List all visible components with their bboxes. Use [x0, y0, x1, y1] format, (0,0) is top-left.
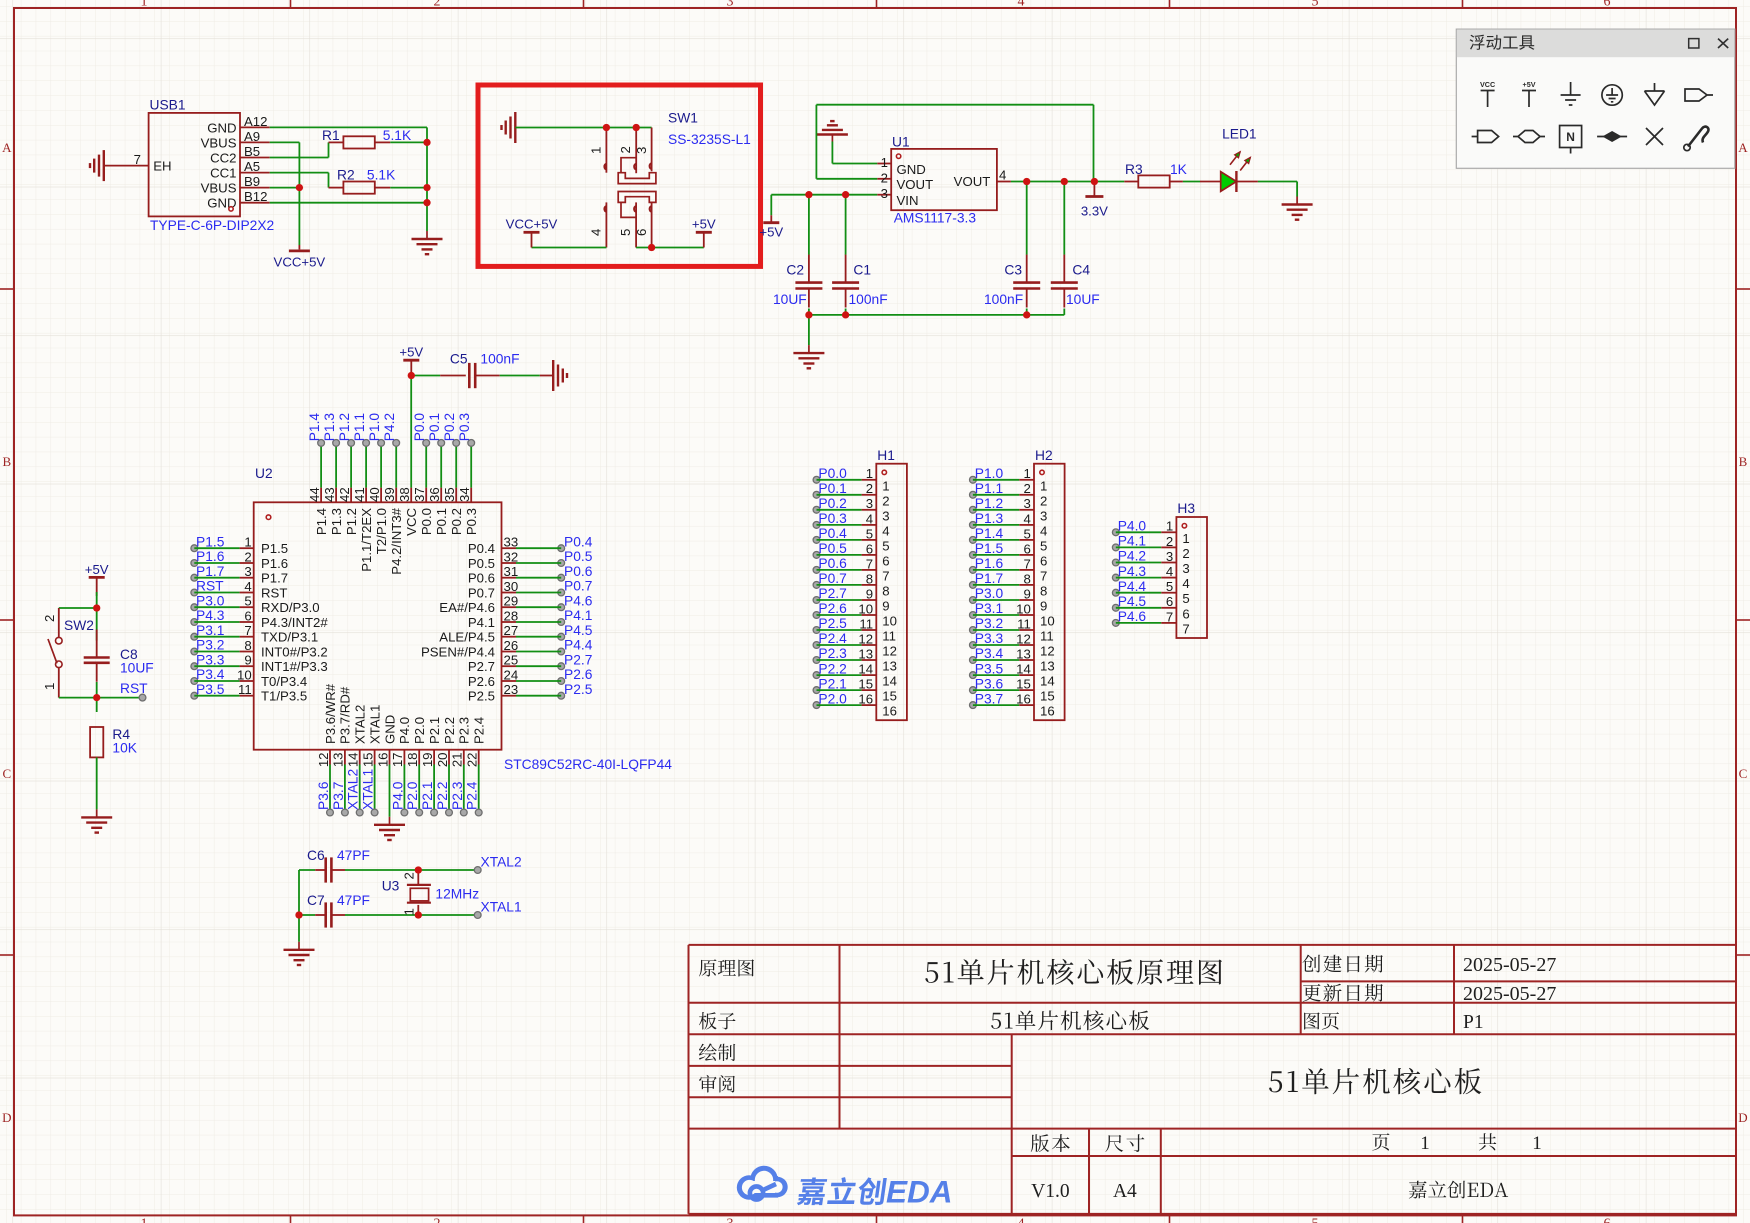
- svg-text:4: 4: [882, 523, 889, 538]
- svg-text:5: 5: [882, 538, 889, 553]
- svg-text:14: 14: [1040, 674, 1055, 689]
- svg-text:14: 14: [1016, 662, 1031, 677]
- svg-text:SS-3235S-L1: SS-3235S-L1: [668, 132, 751, 147]
- svg-text:P2.6: P2.6: [468, 674, 495, 689]
- svg-text:P1.5: P1.5: [261, 541, 288, 556]
- svg-text:4: 4: [866, 511, 873, 526]
- svg-text:XTAL2: XTAL2: [353, 705, 368, 744]
- svg-text:STC89C52RC-40I-LQFP44: STC89C52RC-40I-LQFP44: [504, 757, 672, 772]
- svg-text:2025-05-27: 2025-05-27: [1463, 954, 1556, 976]
- svg-text:3: 3: [882, 508, 889, 523]
- svg-text:C3: C3: [1004, 263, 1022, 278]
- svg-text:1: 1: [589, 147, 604, 154]
- svg-text:35: 35: [442, 487, 457, 502]
- svg-text:3: 3: [244, 564, 251, 579]
- svg-text:+5V: +5V: [85, 562, 109, 577]
- svg-text:INT0#/P3.2: INT0#/P3.2: [261, 645, 328, 660]
- svg-text:15: 15: [858, 677, 873, 692]
- svg-text:14: 14: [346, 753, 361, 768]
- svg-text:P1: P1: [1463, 1012, 1484, 1033]
- svg-text:P3.4: P3.4: [196, 667, 225, 682]
- svg-text:P2.6: P2.6: [818, 601, 847, 616]
- svg-text:P0.7: P0.7: [564, 579, 592, 594]
- svg-text:A4: A4: [1113, 1181, 1137, 1202]
- svg-text:H2: H2: [1035, 448, 1053, 463]
- svg-text:P0.3: P0.3: [457, 413, 472, 442]
- svg-text:P3.1: P3.1: [975, 601, 1003, 616]
- svg-text:P3.5: P3.5: [196, 682, 225, 697]
- svg-text:37: 37: [412, 487, 427, 502]
- svg-text:15: 15: [882, 689, 897, 704]
- svg-text:3: 3: [1166, 549, 1173, 564]
- svg-text:P2.7: P2.7: [818, 586, 846, 601]
- svg-text:6: 6: [634, 229, 649, 236]
- svg-text:2: 2: [434, 0, 441, 10]
- svg-text:V1.0: V1.0: [1031, 1181, 1069, 1202]
- svg-text:33: 33: [504, 535, 519, 550]
- svg-text:6: 6: [1182, 606, 1189, 621]
- svg-text:7: 7: [1166, 609, 1173, 624]
- svg-text:B5: B5: [244, 144, 260, 159]
- svg-text:1: 1: [1166, 519, 1173, 534]
- svg-text:100nF: 100nF: [849, 292, 888, 307]
- svg-text:GND: GND: [207, 196, 236, 211]
- svg-text:A: A: [2, 140, 12, 155]
- svg-text:R2: R2: [337, 168, 355, 183]
- svg-text:2: 2: [244, 549, 251, 564]
- svg-text:P2.4: P2.4: [818, 631, 847, 646]
- svg-text:P0.0: P0.0: [818, 466, 847, 481]
- svg-text:P3.1: P3.1: [196, 623, 224, 638]
- svg-text:3: 3: [1182, 561, 1189, 576]
- svg-text:U3: U3: [382, 879, 400, 894]
- svg-text:19: 19: [420, 753, 435, 768]
- svg-text:7: 7: [1182, 621, 1189, 636]
- svg-text:11: 11: [1017, 616, 1031, 631]
- svg-text:P1.3: P1.3: [975, 511, 1004, 526]
- svg-text:7: 7: [866, 556, 873, 571]
- svg-text:2: 2: [1166, 534, 1173, 549]
- svg-text:P0.0: P0.0: [412, 413, 427, 442]
- svg-text:29: 29: [504, 594, 519, 609]
- svg-text:C1: C1: [853, 263, 871, 278]
- svg-text:RST: RST: [196, 579, 224, 594]
- svg-text:3: 3: [727, 1217, 734, 1223]
- svg-text:12MHz: 12MHz: [435, 887, 479, 902]
- svg-text:P1.0: P1.0: [367, 413, 382, 442]
- svg-text:13: 13: [858, 646, 873, 661]
- svg-text:VOUT: VOUT: [897, 177, 934, 192]
- svg-text:2: 2: [1182, 546, 1189, 561]
- svg-text:P4.2: P4.2: [382, 413, 397, 441]
- svg-text:7: 7: [1023, 556, 1030, 571]
- svg-text:1K: 1K: [1170, 162, 1188, 177]
- svg-text:3: 3: [1040, 508, 1047, 523]
- svg-text:7: 7: [882, 568, 889, 583]
- svg-text:INT1#/P3.3: INT1#/P3.3: [261, 659, 328, 674]
- svg-text:47PF: 47PF: [337, 848, 370, 863]
- svg-text:P3.2: P3.2: [196, 638, 224, 653]
- svg-text:16: 16: [858, 692, 873, 707]
- svg-text:P2.5: P2.5: [564, 682, 593, 697]
- svg-text:VBUS: VBUS: [201, 181, 237, 196]
- svg-text:2: 2: [882, 493, 889, 508]
- svg-text:P0.6: P0.6: [818, 556, 847, 571]
- svg-text:31: 31: [504, 564, 519, 579]
- svg-text:P1.7: P1.7: [975, 571, 1003, 586]
- svg-text:P4.0: P4.0: [397, 717, 412, 744]
- svg-text:8: 8: [1040, 583, 1047, 598]
- svg-text:11: 11: [882, 629, 896, 644]
- svg-text:VCC: VCC: [404, 508, 419, 536]
- svg-text:P0.4: P0.4: [818, 526, 847, 541]
- svg-text:D: D: [1738, 1110, 1747, 1125]
- svg-text:USB1: USB1: [150, 98, 186, 113]
- svg-text:VOUT: VOUT: [954, 174, 991, 189]
- svg-text:42: 42: [337, 487, 352, 502]
- svg-text:P2.5: P2.5: [818, 616, 847, 631]
- svg-text:H3: H3: [1177, 501, 1195, 516]
- svg-text:18: 18: [405, 753, 420, 768]
- svg-text:+5V: +5V: [692, 217, 716, 232]
- svg-text:13: 13: [882, 659, 897, 674]
- svg-text:P0.6: P0.6: [564, 564, 593, 579]
- svg-text:10UF: 10UF: [1066, 292, 1100, 307]
- svg-text:P2.1: P2.1: [818, 676, 846, 691]
- svg-text:7: 7: [244, 623, 251, 638]
- svg-text:5: 5: [866, 526, 873, 541]
- svg-text:P0.1: P0.1: [427, 413, 442, 441]
- svg-text:8: 8: [1023, 571, 1030, 586]
- svg-text:13: 13: [1040, 659, 1055, 674]
- svg-text:P3.2: P3.2: [975, 616, 1003, 631]
- svg-text:GND: GND: [382, 715, 397, 744]
- svg-text:10: 10: [1040, 614, 1055, 629]
- svg-text:P4.3: P4.3: [196, 608, 225, 623]
- svg-text:1: 1: [42, 683, 57, 690]
- svg-text:P2.6: P2.6: [564, 667, 593, 682]
- svg-text:P2.7: P2.7: [564, 652, 592, 667]
- svg-text:6: 6: [1604, 0, 1611, 10]
- svg-text:+5V: +5V: [759, 225, 783, 240]
- svg-text:P1.1: P1.1: [975, 481, 1003, 496]
- svg-text:P1.4: P1.4: [975, 526, 1004, 541]
- svg-text:5: 5: [1040, 538, 1047, 553]
- svg-text:3: 3: [727, 0, 734, 10]
- svg-text:7: 7: [134, 152, 141, 167]
- svg-text:16: 16: [1016, 692, 1031, 707]
- svg-text:P1.2: P1.2: [975, 496, 1003, 511]
- svg-text:P0.7: P0.7: [818, 571, 846, 586]
- svg-text:15: 15: [1016, 677, 1031, 692]
- svg-text:B: B: [1739, 454, 1748, 469]
- svg-text:3: 3: [881, 186, 888, 201]
- svg-text:VCC: VCC: [1480, 80, 1495, 89]
- svg-text:11: 11: [859, 616, 873, 631]
- svg-text:P3.3: P3.3: [196, 652, 225, 667]
- svg-text:P2.3: P2.3: [450, 781, 465, 810]
- svg-text:P3.6: P3.6: [975, 676, 1004, 691]
- svg-text:CC1: CC1: [210, 166, 236, 181]
- svg-text:5: 5: [1166, 579, 1173, 594]
- svg-text:10: 10: [858, 601, 873, 616]
- svg-text:3: 3: [634, 147, 649, 154]
- svg-text:P2.3: P2.3: [818, 646, 847, 661]
- svg-text:GND: GND: [207, 120, 236, 135]
- svg-text:P4.4: P4.4: [564, 638, 593, 653]
- svg-text:26: 26: [504, 638, 519, 653]
- svg-text:43: 43: [322, 487, 337, 502]
- svg-text:40: 40: [367, 487, 382, 502]
- svg-text:P0.1: P0.1: [818, 481, 846, 496]
- svg-text:P2.2: P2.2: [818, 661, 846, 676]
- svg-text:P1.5: P1.5: [975, 541, 1004, 556]
- svg-text:9: 9: [244, 653, 251, 668]
- svg-text:C: C: [1739, 766, 1748, 781]
- svg-text:P2.4: P2.4: [472, 717, 487, 744]
- svg-text:3: 3: [1023, 496, 1030, 511]
- svg-text:4: 4: [1018, 0, 1025, 10]
- svg-text:6: 6: [1166, 594, 1173, 609]
- svg-text:P3.6/WR#: P3.6/WR#: [323, 683, 338, 744]
- svg-text:21: 21: [450, 753, 465, 768]
- svg-text:P1.0: P1.0: [975, 466, 1004, 481]
- svg-text:P4.5: P4.5: [564, 623, 593, 638]
- svg-text:P4.1: P4.1: [1118, 534, 1146, 549]
- svg-text:TYPE-C-6P-DIP2X2: TYPE-C-6P-DIP2X2: [150, 218, 274, 233]
- svg-text:P4.2/INT3#: P4.2/INT3#: [389, 507, 404, 574]
- svg-text:P4.6: P4.6: [1118, 609, 1147, 624]
- svg-text:P1.3: P1.3: [329, 508, 344, 535]
- svg-text:P1.7: P1.7: [261, 571, 288, 586]
- svg-text:1: 1: [1023, 466, 1030, 481]
- svg-text:A5: A5: [244, 159, 260, 174]
- svg-text:P0.3: P0.3: [818, 511, 847, 526]
- svg-text:XTAL2: XTAL2: [346, 769, 361, 810]
- svg-text:P1.2: P1.2: [344, 508, 359, 535]
- svg-text:+5V: +5V: [399, 345, 423, 360]
- svg-text:LED1: LED1: [1222, 127, 1257, 142]
- svg-text:34: 34: [457, 487, 472, 502]
- svg-text:6: 6: [1023, 541, 1030, 556]
- svg-text:14: 14: [858, 662, 873, 677]
- svg-text:AMS1117-3.3: AMS1117-3.3: [894, 211, 977, 226]
- svg-text:P1.6: P1.6: [261, 556, 288, 571]
- svg-text:P4.6: P4.6: [564, 593, 593, 608]
- svg-text:C7: C7: [307, 893, 325, 908]
- svg-text:P0.5: P0.5: [818, 541, 847, 556]
- svg-text:2: 2: [434, 1217, 441, 1223]
- svg-text:P4.1: P4.1: [468, 615, 495, 630]
- svg-text:P4.2: P4.2: [1118, 549, 1146, 564]
- svg-text:H1: H1: [877, 448, 895, 463]
- svg-text:6: 6: [244, 608, 251, 623]
- svg-text:XTAL2: XTAL2: [481, 855, 522, 870]
- svg-text:4: 4: [1040, 523, 1047, 538]
- svg-text:5.1K: 5.1K: [367, 168, 396, 183]
- svg-text:P1.4: P1.4: [307, 413, 322, 442]
- svg-text:8: 8: [882, 583, 889, 598]
- svg-text:P0.0: P0.0: [419, 508, 434, 535]
- svg-text:38: 38: [397, 487, 412, 502]
- svg-text:36: 36: [427, 487, 442, 502]
- svg-text:P0.5: P0.5: [564, 549, 593, 564]
- svg-text:1: 1: [141, 1217, 148, 1223]
- svg-text:P2.5: P2.5: [468, 689, 495, 704]
- svg-text:P3.0: P3.0: [975, 586, 1004, 601]
- svg-text:P3.3: P3.3: [975, 631, 1004, 646]
- svg-text:8: 8: [244, 638, 251, 653]
- svg-text:P2.0: P2.0: [818, 691, 847, 706]
- svg-text:XTAL1: XTAL1: [481, 900, 522, 915]
- svg-text:4: 4: [589, 229, 604, 236]
- svg-text:TXD/P3.1: TXD/P3.1: [261, 630, 318, 645]
- svg-text:16: 16: [882, 704, 897, 719]
- svg-text:16: 16: [1040, 704, 1055, 719]
- svg-text:30: 30: [504, 579, 519, 594]
- svg-text:VBUS: VBUS: [201, 135, 237, 150]
- svg-text:2: 2: [1023, 481, 1030, 496]
- svg-text:T2/P1.0: T2/P1.0: [374, 508, 389, 554]
- svg-text:P0.2: P0.2: [818, 496, 846, 511]
- svg-text:R3: R3: [1125, 162, 1143, 177]
- svg-text:1: 1: [1532, 1133, 1542, 1154]
- svg-text:B12: B12: [244, 189, 267, 204]
- svg-text:P4.3: P4.3: [1118, 564, 1147, 579]
- svg-text:10: 10: [882, 614, 897, 629]
- svg-text:14: 14: [882, 674, 897, 689]
- svg-text:5: 5: [244, 594, 251, 609]
- svg-text:A9: A9: [244, 129, 260, 144]
- svg-text:12: 12: [1016, 631, 1031, 646]
- svg-text:1: 1: [244, 535, 251, 550]
- svg-text:P2.3: P2.3: [457, 717, 472, 744]
- svg-text:1: 1: [402, 908, 417, 915]
- svg-text:P4.3/INT2#: P4.3/INT2#: [261, 615, 328, 630]
- svg-text:5: 5: [618, 229, 633, 236]
- svg-text:R1: R1: [322, 128, 340, 143]
- svg-text:12: 12: [1040, 644, 1055, 659]
- svg-text:12: 12: [882, 644, 897, 659]
- svg-text:4: 4: [1166, 564, 1173, 579]
- svg-text:2: 2: [402, 872, 417, 879]
- svg-text:10K: 10K: [112, 741, 137, 756]
- svg-text:41: 41: [352, 487, 367, 502]
- svg-text:P1.5: P1.5: [196, 534, 225, 549]
- svg-text:P4.0: P4.0: [1118, 519, 1147, 534]
- svg-text:C6: C6: [307, 848, 325, 863]
- svg-text:P3.7: P3.7: [331, 782, 346, 810]
- svg-text:5: 5: [1182, 591, 1189, 606]
- svg-text:1: 1: [866, 466, 873, 481]
- svg-text:6: 6: [882, 553, 889, 568]
- svg-text:P1.3: P1.3: [322, 413, 337, 442]
- svg-text:RXD/P3.0: RXD/P3.0: [261, 600, 320, 615]
- svg-text:GND: GND: [897, 162, 926, 177]
- svg-text:P4.0: P4.0: [390, 781, 405, 810]
- svg-text:A12: A12: [244, 114, 267, 129]
- svg-text:P1.6: P1.6: [975, 556, 1004, 571]
- svg-text:VIN: VIN: [897, 193, 919, 208]
- svg-text:P1.1: P1.1: [352, 413, 367, 441]
- svg-text:P3.7: P3.7: [975, 691, 1003, 706]
- svg-text:20: 20: [435, 753, 450, 768]
- svg-text:RST: RST: [261, 586, 287, 601]
- svg-text:P1.4: P1.4: [314, 508, 329, 535]
- svg-text:XTAL1: XTAL1: [361, 769, 376, 810]
- svg-text:44: 44: [307, 487, 322, 502]
- svg-text:+5V: +5V: [1523, 80, 1536, 89]
- svg-text:P0.2: P0.2: [442, 413, 457, 441]
- svg-text:10UF: 10UF: [773, 292, 807, 307]
- svg-text:13: 13: [1016, 646, 1031, 661]
- svg-text:2: 2: [618, 146, 633, 153]
- svg-text:16: 16: [375, 753, 390, 768]
- svg-text:100nF: 100nF: [984, 292, 1023, 307]
- svg-text:P1.2: P1.2: [337, 413, 352, 441]
- svg-text:U2: U2: [255, 466, 273, 481]
- svg-text:P1.1/T2EX: P1.1/T2EX: [359, 508, 374, 572]
- svg-text:6: 6: [1604, 1217, 1611, 1223]
- svg-text:VCC+5V: VCC+5V: [506, 217, 558, 232]
- svg-text:15: 15: [1040, 689, 1055, 704]
- svg-text:24: 24: [504, 667, 519, 682]
- svg-text:EH: EH: [153, 159, 171, 174]
- svg-text:C5: C5: [450, 352, 468, 367]
- svg-text:B9: B9: [244, 174, 260, 189]
- svg-text:9: 9: [866, 586, 873, 601]
- svg-text:5: 5: [1312, 0, 1319, 10]
- svg-text:2: 2: [1040, 493, 1047, 508]
- svg-text:C: C: [2, 766, 11, 781]
- svg-text:3.3V: 3.3V: [1081, 204, 1108, 219]
- svg-text:P0.4: P0.4: [468, 541, 495, 556]
- svg-text:1: 1: [1040, 478, 1047, 493]
- svg-text:P2.1: P2.1: [420, 782, 435, 810]
- svg-text:T1/P3.5: T1/P3.5: [261, 689, 307, 704]
- svg-text:D: D: [2, 1110, 11, 1125]
- svg-text:SW1: SW1: [668, 111, 698, 126]
- svg-text:PSEN#/P4.4: PSEN#/P4.4: [421, 645, 495, 660]
- svg-text:P4.5: P4.5: [1118, 594, 1147, 609]
- svg-text:23: 23: [504, 682, 519, 697]
- svg-text:2: 2: [866, 481, 873, 496]
- svg-text:28: 28: [504, 608, 519, 623]
- svg-text:XTAL1: XTAL1: [367, 705, 382, 744]
- svg-text:39: 39: [382, 487, 397, 502]
- svg-text:2: 2: [42, 615, 57, 622]
- svg-text:P2.2: P2.2: [442, 717, 457, 744]
- svg-text:N: N: [1566, 130, 1575, 144]
- svg-text:P1.6: P1.6: [196, 549, 225, 564]
- svg-text:P2.2: P2.2: [435, 782, 450, 810]
- svg-text:2: 2: [881, 170, 888, 185]
- svg-text:32: 32: [504, 549, 519, 564]
- svg-text:10: 10: [1016, 601, 1031, 616]
- svg-text:4: 4: [1018, 1217, 1025, 1223]
- svg-text:P3.0: P3.0: [196, 593, 225, 608]
- svg-text:12: 12: [316, 753, 331, 768]
- svg-text:U1: U1: [892, 135, 910, 150]
- svg-text:A: A: [1738, 140, 1748, 155]
- svg-text:EA#/P4.6: EA#/P4.6: [439, 600, 495, 615]
- svg-text:6: 6: [866, 541, 873, 556]
- svg-text:P1.7: P1.7: [196, 564, 224, 579]
- svg-text:CC2: CC2: [210, 151, 236, 166]
- svg-text:P3.6: P3.6: [316, 781, 331, 810]
- svg-text:9: 9: [1023, 586, 1030, 601]
- svg-text:100nF: 100nF: [480, 352, 519, 367]
